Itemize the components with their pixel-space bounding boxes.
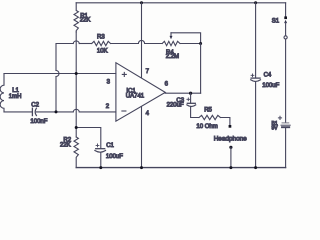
svg-text:10K: 10K <box>97 48 108 54</box>
svg-text:R3: R3 <box>97 34 105 40</box>
svg-text:4: 4 <box>146 111 150 117</box>
node pin3 wire / R1-R2 vertical junction <box>75 72 78 75</box>
inductor L1 <box>0 74 4 112</box>
node tank bottom / R3 tap junction <box>55 110 58 113</box>
svg-text:Headphone: Headphone <box>214 135 247 142</box>
node C1 branch junction <box>75 126 78 129</box>
node top rail / pin7 branch junction <box>140 1 143 4</box>
wire battery to bottom rail <box>285 128 287 167</box>
wire hop over pin7 vertical <box>138 40 144 43</box>
capacitor C4 <box>251 77 260 79</box>
capacitor C2 <box>31 108 33 115</box>
wire C3 to R5 <box>191 107 199 118</box>
svg-text:7: 7 <box>146 69 150 75</box>
svg-text:6: 6 <box>165 82 169 88</box>
svg-text:2.2M: 2.2M <box>166 54 179 60</box>
wire tank bottom / pin2 wire left part <box>4 111 32 113</box>
battery B1 <box>282 122 289 124</box>
resistor R3 <box>92 41 111 45</box>
headphone bottom terminal <box>229 146 232 149</box>
node bottom rail / pin4 junction <box>140 166 143 169</box>
svg-text:220uF: 220uF <box>167 103 184 109</box>
wire R3 to R4 <box>111 43 139 45</box>
wire R5 to headphone terminal <box>220 118 230 126</box>
resistor R2 <box>74 137 78 168</box>
resistor R5 <box>199 115 220 119</box>
wire feedback vertical down to output <box>200 44 202 94</box>
wire hop of vertical over pin3 wire <box>56 71 59 77</box>
capacitor C4 branch wire <box>255 3 257 78</box>
svg-text:22K: 22K <box>60 143 71 149</box>
wire C2 to pin2 <box>36 111 73 113</box>
svg-text:2: 2 <box>106 104 110 110</box>
op-amp U1 (IC1 uA741) <box>116 63 165 121</box>
wire left vertical (R1 bottom to pin3 node to C1 node) <box>75 32 77 137</box>
wire hop over R1 vertical <box>73 41 79 44</box>
svg-text:R5: R5 <box>204 108 212 114</box>
capacitor C1 <box>96 148 105 150</box>
wire right column from top rail to switch <box>285 3 287 17</box>
wire switch to battery <box>285 39 287 122</box>
svg-text:100uF: 100uF <box>106 154 123 160</box>
wiper arrow of R4 <box>170 33 172 37</box>
switch S1 <box>284 16 287 19</box>
wire pin3 (non-inverting input) horizontal <box>4 73 116 75</box>
wire top supply rail <box>76 2 285 4</box>
wire bottom ground rail <box>76 167 285 169</box>
svg-text:10 Ohm: 10 Ohm <box>196 124 217 130</box>
capacitor C3 <box>190 93 192 103</box>
wire C4 to bottom rail <box>255 82 257 167</box>
svg-text:UA741: UA741 <box>126 93 145 99</box>
svg-text:100uF: 100uF <box>262 83 279 89</box>
svg-text:S1: S1 <box>272 19 280 25</box>
svg-text:C4: C4 <box>264 72 272 78</box>
wire op-amp output <box>165 92 200 94</box>
node output / C3 branch junction <box>189 92 192 95</box>
wire pin7 supply from top rail <box>141 3 143 78</box>
svg-text:22K: 22K <box>80 17 91 23</box>
svg-text:100nF: 100nF <box>30 119 47 125</box>
svg-text:C2: C2 <box>31 102 39 108</box>
wire headphone return to bottom rail <box>230 147 232 167</box>
node top rail / C4 branch junction <box>254 1 257 4</box>
node bottom rail / C4 junction <box>254 166 257 169</box>
svg-text:C1: C1 <box>106 143 114 149</box>
node bottom rail / headphone junction <box>229 166 232 169</box>
capacitor C1 branch wire <box>76 128 101 149</box>
wire hop of pin2 wire over R1 vertical <box>73 109 79 112</box>
wire C1 to bottom rail <box>100 153 102 168</box>
node bottom rail / C1 junction <box>99 166 102 169</box>
resistor R1 <box>74 3 78 32</box>
wire R3 feedback tap: vertical from tank bottom node up, then right <box>56 44 73 112</box>
headphone top terminal <box>229 125 232 128</box>
svg-text:L1: L1 <box>12 88 19 94</box>
svg-text:9V: 9V <box>272 126 279 132</box>
svg-text:3: 3 <box>107 79 111 85</box>
node R4 right / feedback junction <box>199 42 202 45</box>
wire pin4 to bottom rail <box>141 107 143 168</box>
resistor R4 (trimmer) <box>162 41 180 45</box>
svg-text:1mH: 1mH <box>9 94 22 100</box>
